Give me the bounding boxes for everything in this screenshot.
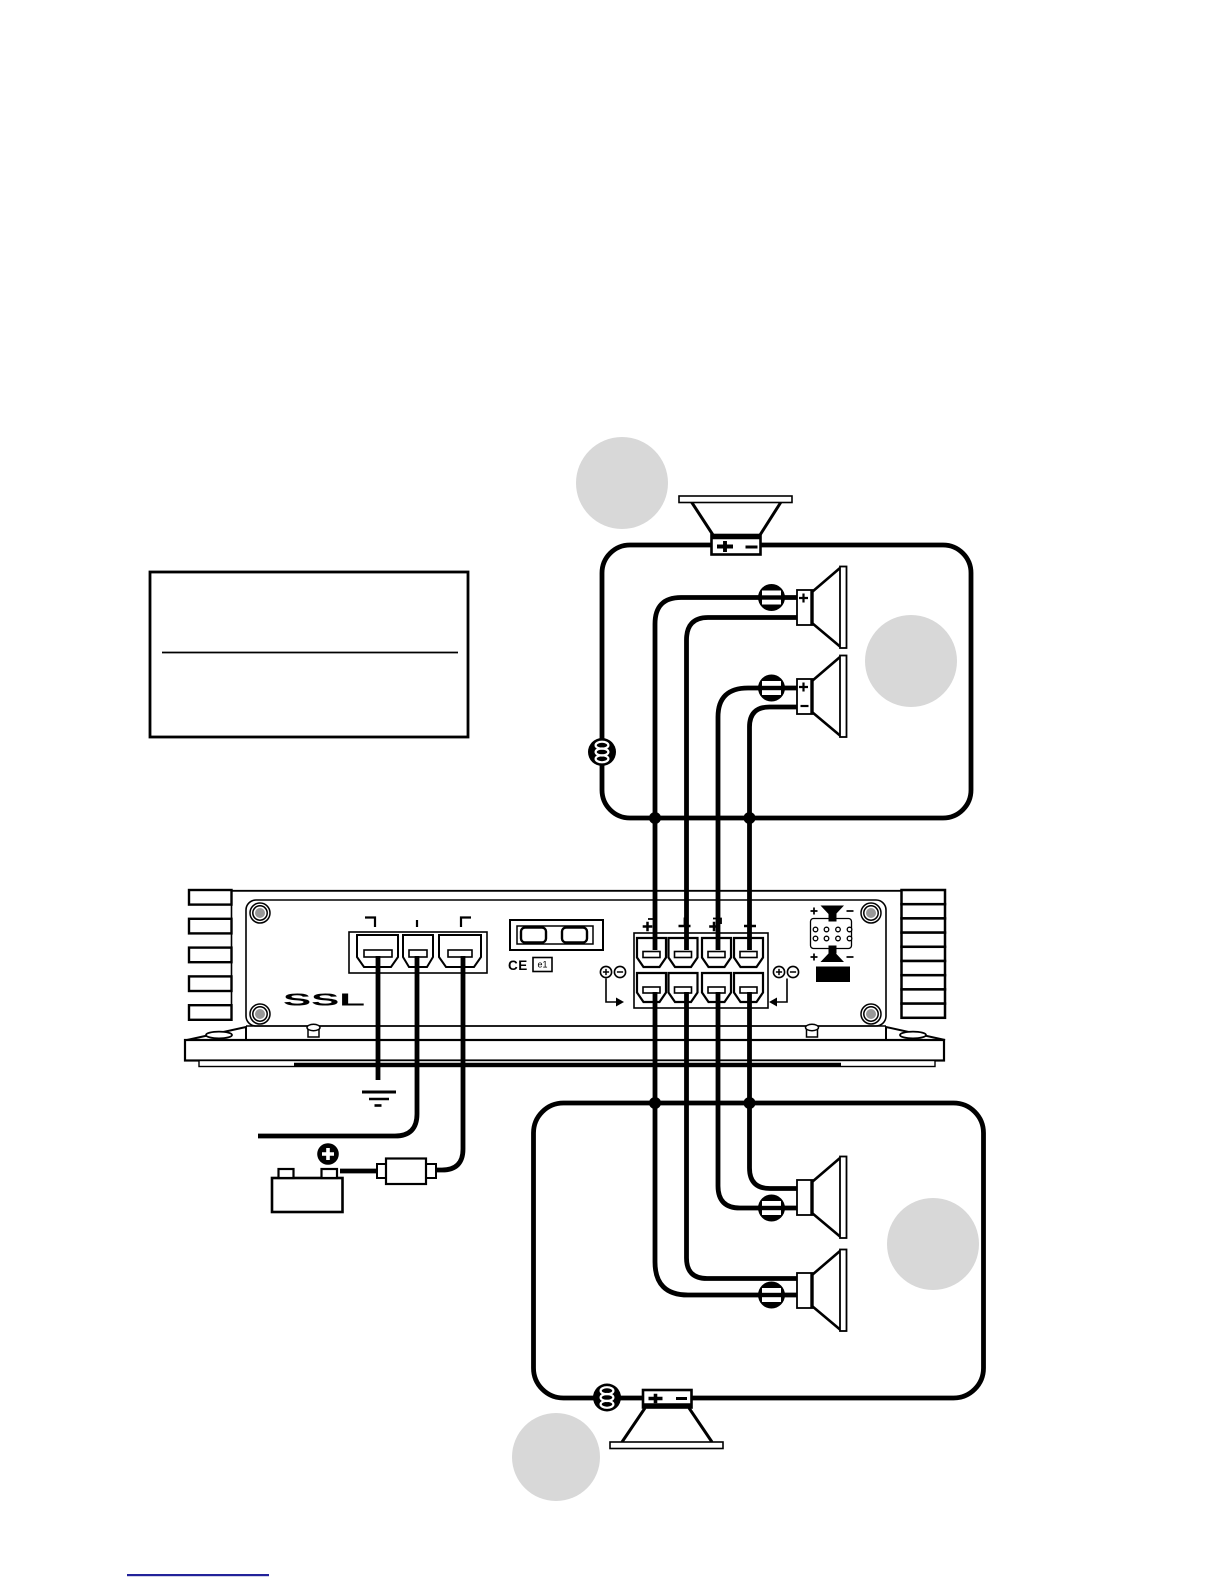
svg-text:e1: e1: [538, 960, 548, 970]
svg-text:SSL: SSL: [283, 990, 366, 1010]
svg-text:CE: CE: [508, 958, 528, 973]
